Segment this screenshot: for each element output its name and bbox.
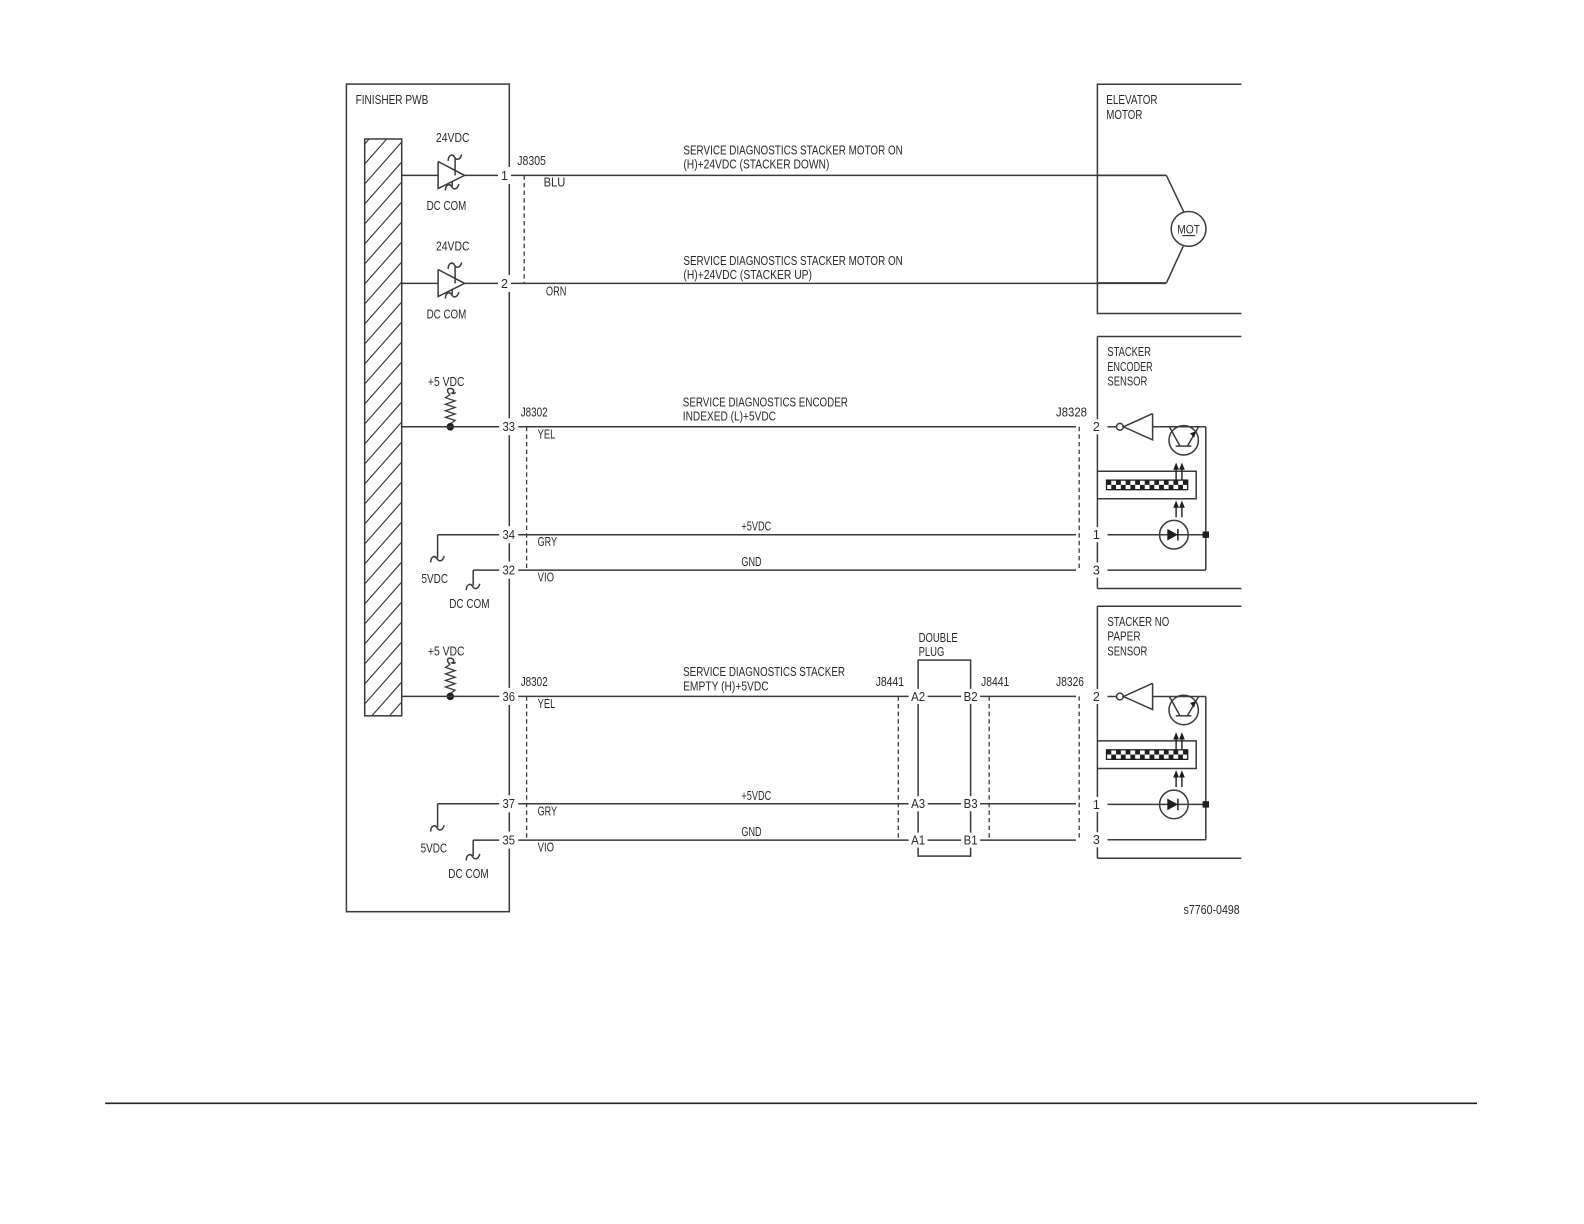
svg-text:5VDC: 5VDC <box>421 840 448 855</box>
driver U2 (stacker up, pin 2) <box>402 263 510 299</box>
wire pin35 VIO to no-paper sensor pin3 <box>473 839 1076 841</box>
svg-text:J8302: J8302 <box>521 404 548 419</box>
stacker no paper sensor <box>1097 606 1241 858</box>
wire pin34 GRY to encoder sensor pin1 <box>438 534 1076 536</box>
light arrows upper <box>1173 732 1179 739</box>
svg-text:(H)+24VDC (STACKER DOWN): (H)+24VDC (STACKER DOWN) <box>683 156 829 171</box>
connector J8328 dashed line <box>1078 427 1080 570</box>
svg-text:J8305: J8305 <box>517 153 546 168</box>
svg-text:DC COM: DC COM <box>448 866 488 881</box>
svg-text:J8441: J8441 <box>981 674 1009 689</box>
svg-text:ORN: ORN <box>546 284 567 299</box>
resistor R2 (+5 VDC pull-up, pin 36) <box>446 658 456 699</box>
svg-text:+5VDC: +5VDC <box>741 788 771 803</box>
sensor pin3 wire <box>1108 839 1206 841</box>
svg-text:ENCODER: ENCODER <box>1107 359 1152 374</box>
svg-text:GRY: GRY <box>538 534 558 549</box>
svg-text:STACKER: STACKER <box>1107 344 1151 359</box>
sensor box <box>1097 336 1241 338</box>
svg-text:5VDC: 5VDC <box>422 571 449 586</box>
svg-text:GND: GND <box>741 554 761 569</box>
svg-text:A3: A3 <box>911 797 925 811</box>
phototransistor Q <box>1153 696 1206 698</box>
svg-text:B3: B3 <box>964 797 978 811</box>
connector J8302 dashed line (encoder) <box>526 427 528 570</box>
driver U1 (stacker down, pin 1) <box>402 155 510 191</box>
svg-text:35: 35 <box>502 834 515 848</box>
svg-text:B2: B2 <box>964 690 978 704</box>
encoder wheel channel <box>1097 471 1196 499</box>
double plug box <box>918 660 971 856</box>
connector J8441 dashed line B <box>988 696 990 840</box>
light arrows lower <box>1173 501 1179 508</box>
svg-text:FINISHER PWB: FINISHER PWB <box>356 92 429 107</box>
svg-text:EMPTY (H)+5VDC: EMPTY (H)+5VDC <box>683 678 769 693</box>
inverter <box>1108 426 1117 428</box>
encoder strip <box>1107 480 1188 490</box>
wire pin32 VIO to encoder sensor pin3 <box>473 569 1076 571</box>
LED D <box>1108 803 1206 805</box>
svg-text:2: 2 <box>501 277 508 291</box>
svg-text:+5 VDC: +5 VDC <box>428 644 465 659</box>
sensor pin3 wire <box>1108 569 1206 571</box>
light arrows lower <box>1173 770 1179 777</box>
svg-text:3: 3 <box>1093 833 1100 847</box>
inverter <box>1108 696 1117 698</box>
svg-text:DC COM: DC COM <box>449 596 489 611</box>
svg-text:SERVICE DIAGNOSTICS ENCODER: SERVICE DIAGNOSTICS ENCODER <box>683 395 848 410</box>
finisher PWB box <box>346 84 509 912</box>
wire pin1 BLU to elevator motor <box>509 174 1166 176</box>
5VDC source hook (pin 37) <box>431 804 445 832</box>
svg-text:1: 1 <box>501 169 508 183</box>
svg-text:32: 32 <box>502 564 515 578</box>
svg-text:PLUG: PLUG <box>919 644 945 659</box>
svg-text:DC COM: DC COM <box>427 198 467 213</box>
sensor connector pin numbers 2 1 3 <box>1078 419 1108 847</box>
svg-text:37: 37 <box>502 797 515 811</box>
wire pin36 YEL to no-paper sensor pin2 <box>402 695 1076 697</box>
wire pin33 YEL to encoder sensor pin2 <box>402 426 1076 428</box>
svg-text:s7760-0498: s7760-0498 <box>1184 902 1240 917</box>
encoder wheel channel <box>1097 741 1196 769</box>
svg-text:2: 2 <box>1093 420 1100 434</box>
svg-text:INDEXED (L)+5VDC: INDEXED (L)+5VDC <box>683 408 776 423</box>
svg-text:(H)+24VDC (STACKER UP): (H)+24VDC (STACKER UP) <box>683 267 812 282</box>
5VDC source hook (pin 34) <box>431 535 445 563</box>
double plug pin labels A2 B2 A3 B3 A1 B1 <box>909 689 981 848</box>
PWB hatched bar <box>365 139 402 716</box>
connector pin numbers on PWB edge <box>498 167 518 849</box>
svg-text:J8328: J8328 <box>1056 404 1087 419</box>
svg-text:24VDC: 24VDC <box>436 239 470 254</box>
svg-text:36: 36 <box>502 690 515 704</box>
svg-text:STACKER NO: STACKER NO <box>1107 614 1169 629</box>
svg-text:MOT: MOT <box>1177 222 1200 236</box>
connector J8305 dashed line <box>523 175 525 283</box>
svg-text:A1: A1 <box>911 834 925 848</box>
motor MOT winding trapezoid <box>1097 174 1166 176</box>
svg-text:B1: B1 <box>964 834 978 848</box>
elevator motor box <box>1097 84 1241 313</box>
connector J8326 dashed line <box>1078 696 1080 840</box>
svg-text:J8441: J8441 <box>876 674 904 689</box>
svg-text:34: 34 <box>502 528 515 542</box>
svg-text:1: 1 <box>1093 798 1100 812</box>
svg-text:GND: GND <box>741 824 761 839</box>
svg-text:33: 33 <box>502 420 515 434</box>
wire pin2 ORN to elevator motor <box>509 282 1166 284</box>
motor MOT circle <box>1171 212 1206 247</box>
svg-text:1: 1 <box>1093 528 1100 542</box>
svg-text:A2: A2 <box>911 690 925 704</box>
svg-text:YEL: YEL <box>538 426 556 441</box>
LED D <box>1108 534 1206 536</box>
DC COM hook (pin 32) <box>466 570 480 590</box>
svg-text:DC COM: DC COM <box>427 306 467 321</box>
connector J8441 dashed line A <box>897 696 899 840</box>
encoder strip <box>1107 750 1188 760</box>
svg-text:SENSOR: SENSOR <box>1107 643 1147 658</box>
svg-text:3: 3 <box>1093 564 1100 578</box>
svg-text:+5VDC: +5VDC <box>741 519 771 534</box>
svg-text:J8326: J8326 <box>1056 674 1084 689</box>
svg-text:YEL: YEL <box>538 696 556 711</box>
connector J8302 dashed line (no paper) <box>526 696 528 840</box>
wire pin37 GRY to no-paper sensor pin1 <box>438 803 1076 805</box>
svg-text:VIO: VIO <box>538 570 554 585</box>
svg-text:MOTOR: MOTOR <box>1106 107 1142 122</box>
svg-text:BLU: BLU <box>544 175 566 190</box>
svg-text:GRY: GRY <box>538 803 558 818</box>
svg-text:24VDC: 24VDC <box>436 130 470 145</box>
junction node <box>1203 532 1209 538</box>
light arrows upper <box>1173 463 1179 470</box>
resistor R1 (+5 VDC pull-up, pin 33) <box>446 388 456 429</box>
svg-text:SENSOR: SENSOR <box>1107 374 1147 389</box>
junction node <box>1203 801 1209 807</box>
svg-text:PAPER: PAPER <box>1107 629 1140 644</box>
svg-text:2: 2 <box>1093 690 1100 704</box>
sensor box <box>1097 605 1241 607</box>
svg-text:SERVICE DIAGNOSTICS STACKER: SERVICE DIAGNOSTICS STACKER <box>683 664 845 679</box>
DC COM hook (pin 35) <box>466 840 480 860</box>
svg-text:+5 VDC: +5 VDC <box>428 374 465 389</box>
svg-text:J8302: J8302 <box>521 674 548 689</box>
phototransistor Q <box>1153 426 1206 428</box>
footer rule <box>105 1102 1477 1104</box>
svg-text:ELEVATOR: ELEVATOR <box>1106 92 1157 107</box>
stacker encoder sensor <box>1097 337 1241 589</box>
svg-text:VIO: VIO <box>538 840 554 855</box>
